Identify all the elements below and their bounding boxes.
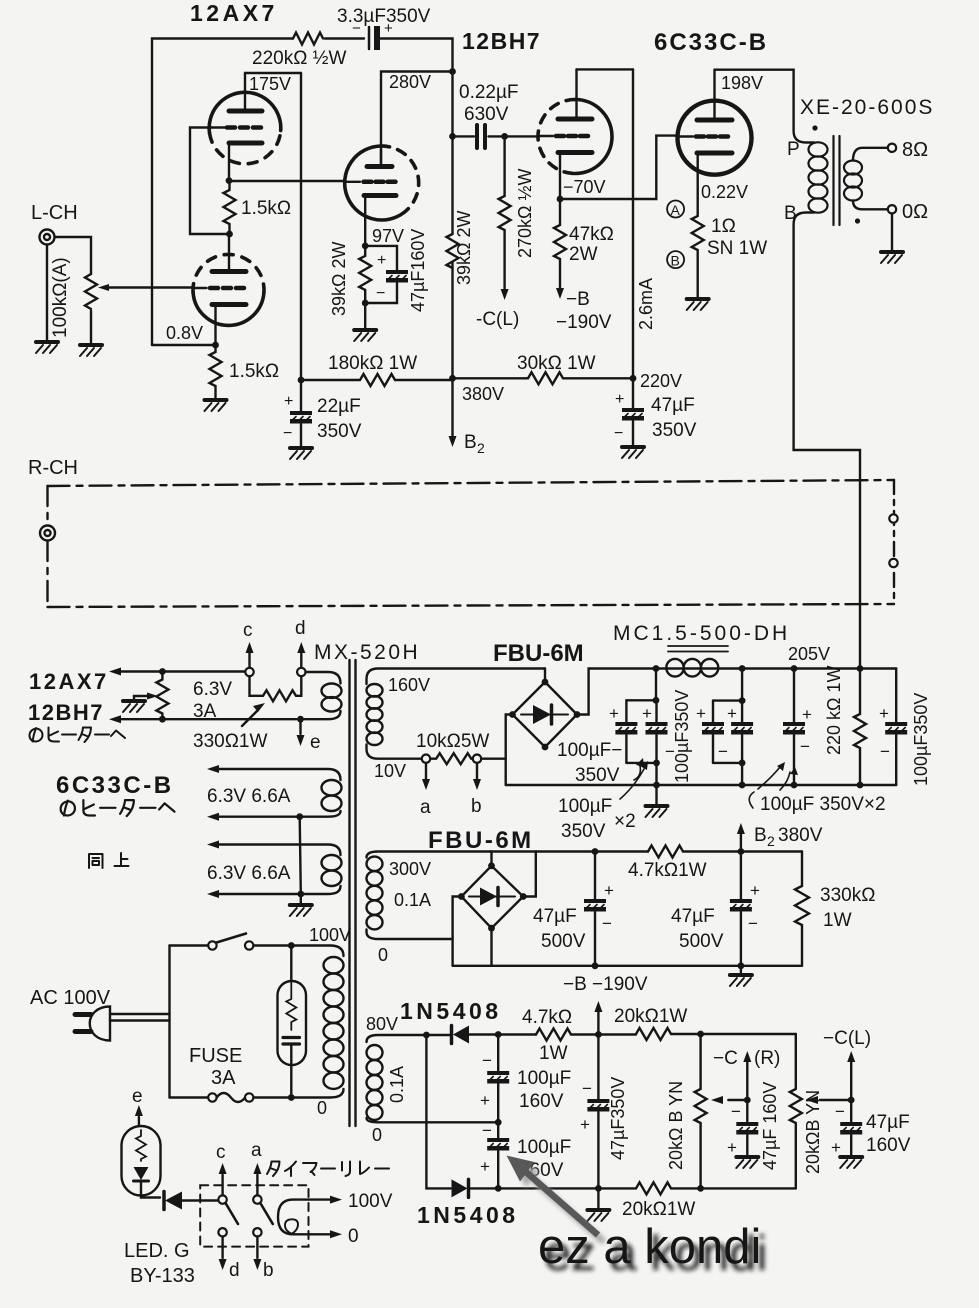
- svg-text:12AX7: 12AX7: [29, 669, 109, 694]
- V3 plate: [558, 117, 592, 122]
- svg-text:−70V: −70V: [563, 177, 606, 197]
- diode 1N5408 no2: [452, 1179, 468, 1197]
- svg-text:6.3V 6.6A: 6.3V 6.6A: [207, 786, 291, 807]
- svg-text:350V: 350V: [652, 420, 697, 441]
- V2 cathode: [364, 193, 396, 198]
- svg-text:3.3µF350V: 3.3µF350V: [337, 6, 431, 27]
- svg-text:500V: 500V: [679, 931, 724, 952]
- node rail cap1: [653, 665, 660, 672]
- OPT secondary top wire: [853, 148, 888, 161]
- wire 175V node down: [300, 73, 302, 380]
- svg-text:B: B: [671, 253, 680, 269]
- wire feedback top: [152, 39, 364, 346]
- svg-text:6C33C-B: 6C33C-B: [56, 772, 174, 799]
- resistor 1 ohm SN 1W: [692, 212, 704, 298]
- svg-text:39kΩ 2W: 39kΩ 2W: [329, 242, 349, 316]
- node SRPP mid: [226, 231, 233, 238]
- svg-text:(R): (R): [754, 1048, 780, 1069]
- svg-text:B: B: [464, 432, 477, 453]
- svg-text:FBU-6M: FBU-6M: [428, 827, 534, 854]
- arrow to -B: [556, 288, 564, 299]
- svg-text:+: +: [615, 391, 624, 408]
- resistor 4.7k 1W: [648, 846, 683, 858]
- capacitor 100uF c: [712, 701, 714, 722]
- svg-text:30kΩ 1W: 30kΩ 1W: [517, 353, 596, 374]
- svg-text:10V: 10V: [374, 761, 406, 781]
- capacitor 47uF 160V right ch: [746, 1100, 748, 1122]
- svg-text:1.5kΩ: 1.5kΩ: [241, 198, 291, 219]
- svg-text:47µF: 47µF: [671, 906, 715, 927]
- svg-text:280V: 280V: [389, 72, 431, 92]
- wire bridge2 ac2: [453, 897, 462, 966]
- V3 cathode: [558, 150, 592, 155]
- svg-text:SN 1W: SN 1W: [707, 238, 767, 259]
- wire bridge2 dc+: [523, 852, 536, 897]
- svg-text:0.22µF: 0.22µF: [459, 82, 519, 103]
- capacitor 47uF 500V a: [594, 852, 596, 900]
- svg-text:+: +: [831, 1138, 841, 1157]
- svg-text:4.7kΩ: 4.7kΩ: [522, 1007, 572, 1028]
- winding 300V: [367, 852, 491, 940]
- terminal a tap: [422, 755, 430, 763]
- wire bridge2 dc-: [490, 928, 492, 966]
- svg-text:0: 0: [317, 1098, 327, 1118]
- svg-text:−: −: [614, 425, 623, 442]
- svg-text:0: 0: [372, 1125, 382, 1145]
- node heater link 1: [296, 813, 303, 820]
- node V2 cathode: [362, 243, 369, 250]
- svg-text:47µF 160V: 47µF 160V: [760, 1082, 780, 1170]
- svg-text:220 kΩ 1W: 220 kΩ 1W: [824, 665, 844, 755]
- svg-text:350V: 350V: [561, 821, 606, 842]
- capacitor 100uF a: [625, 700, 627, 722]
- wire to V3 grid: [505, 135, 539, 137]
- wire OPT B down: [794, 213, 860, 667]
- node doubler plus: [495, 1031, 502, 1038]
- V1b plate: [212, 269, 246, 274]
- svg-text:+: +: [879, 704, 889, 723]
- svg-text:47µF: 47µF: [533, 906, 577, 927]
- resistor 4.7k 1W doubler: [536, 1029, 571, 1041]
- svg-text:+: +: [727, 1138, 737, 1157]
- capacitor 100uF b: [655, 700, 657, 722]
- svg-text:380V: 380V: [778, 825, 823, 846]
- cap pair2 top bar: [713, 669, 742, 701]
- resistor 330 ohm 1W link: [250, 676, 302, 701]
- svg-text:+: +: [696, 704, 706, 723]
- svg-text:−: −: [376, 285, 385, 302]
- AC plug: [90, 1007, 110, 1041]
- svg-text:A: A: [671, 202, 681, 218]
- svg-text:160V: 160V: [388, 675, 430, 695]
- capacitor 47uF 350V: [632, 378, 634, 408]
- svg-text:−: −: [602, 914, 612, 933]
- svg-text:−C: −C: [713, 1048, 738, 1069]
- svg-text:×2: ×2: [614, 811, 636, 832]
- svg-text:20kΩ1W: 20kΩ1W: [614, 1006, 687, 1027]
- relay contact a: [253, 1195, 261, 1203]
- svg-text:47µF350V: 47µF350V: [608, 1077, 628, 1160]
- svg-text:+: +: [604, 881, 614, 900]
- V1b cathode: [212, 302, 246, 307]
- wire grid V1a loop: [190, 128, 229, 235]
- potentiometer 100k(A): [85, 274, 97, 309]
- resistor 330k 1W: [795, 852, 809, 966]
- wire bridge1 top tie: [544, 669, 546, 683]
- fuse: [170, 1096, 209, 1098]
- arrow to -C(L): [501, 289, 509, 300]
- node rail choke right: [739, 665, 746, 672]
- svg-text:0.1A: 0.1A: [394, 890, 431, 910]
- svg-text:P: P: [787, 139, 800, 160]
- terminal A: [667, 201, 684, 218]
- rail -B -190V: [453, 965, 802, 967]
- ground supply1: [655, 785, 657, 806]
- svg-text:1N5408: 1N5408: [400, 998, 502, 1024]
- ground 47uF 220V: [622, 447, 644, 458]
- wire plate V1a to node: [245, 72, 301, 74]
- svg-text:100kΩ(A): 100kΩ(A): [50, 257, 71, 338]
- node B2 tap: [738, 848, 745, 855]
- OPT secondary winding: [844, 161, 862, 201]
- capacitor 47uF 160V left ch: [850, 1100, 852, 1122]
- arrow to -B upper: [597, 1012, 599, 1035]
- wire 6C33C heater 2 top: [219, 845, 341, 856]
- AC cord: [110, 1014, 170, 1021]
- svg-text:100µF350V: 100µF350V: [672, 690, 692, 783]
- cap pair2 bottom bar: [713, 763, 742, 785]
- terminal 0 ohm: [888, 205, 896, 213]
- wire bridge2 top tie: [490, 852, 492, 866]
- capacitor 100uF d: [741, 701, 743, 722]
- svg-text:100µF: 100µF: [517, 1137, 571, 1158]
- resistor 220k feedback: [293, 33, 323, 45]
- svg-text:100µF 350V×2: 100µF 350V×2: [760, 794, 886, 815]
- svg-text:0.1A: 0.1A: [387, 1066, 407, 1103]
- hum pot wiper ground: [134, 696, 147, 700]
- svg-text:6.3V 6.6A: 6.3V 6.6A: [207, 863, 291, 884]
- wire plate V2: [381, 72, 453, 167]
- MX core: [350, 660, 356, 1126]
- arrow B2 feed: [451, 378, 453, 436]
- svg-text:220V: 220V: [640, 371, 682, 391]
- node V3 grid: [501, 133, 508, 140]
- svg-text:100µF: 100µF: [558, 796, 612, 817]
- svg-text:330kΩ: 330kΩ: [820, 885, 875, 906]
- svg-text:100V: 100V: [309, 925, 351, 945]
- relay coil: [278, 1200, 309, 1235]
- wire heater center tap: [300, 817, 301, 905]
- V4 grid: [696, 134, 728, 139]
- svg-text:39kΩ 2W: 39kΩ 2W: [454, 211, 474, 285]
- svg-text:BY-133: BY-133: [130, 1265, 195, 1287]
- svg-text:R-CH: R-CH: [28, 457, 78, 479]
- node -70V: [557, 196, 564, 203]
- node pot R top: [697, 1031, 704, 1038]
- wire B+ column 12BH7: [451, 72, 453, 379]
- svg-text:4.7kΩ1W: 4.7kΩ1W: [628, 860, 707, 881]
- triode V3 envelope: [575, 100, 612, 174]
- wire heater bottom: [121, 718, 296, 720]
- resistor 30k 1W: [453, 372, 634, 384]
- node -C feed: [595, 1031, 602, 1038]
- node 220V: [630, 375, 637, 382]
- R-CH box right edge: [893, 480, 895, 604]
- svg-text:+: +: [727, 704, 737, 723]
- node pot R bottom: [697, 1185, 704, 1192]
- relay box: [200, 1185, 308, 1246]
- arrow -C(R): [746, 1062, 748, 1100]
- svg-text:AC 100V: AC 100V: [30, 987, 111, 1009]
- svg-text:+: +: [802, 705, 812, 724]
- relay out 100V: [309, 1198, 331, 1200]
- svg-text:100µF−: 100µF−: [557, 740, 622, 761]
- svg-text:330Ω1W: 330Ω1W: [193, 731, 267, 752]
- potentiometer 20k B YN right ch: [695, 1034, 707, 1188]
- svg-text:3A: 3A: [193, 701, 217, 722]
- svg-text:100µF: 100µF: [517, 1068, 571, 1089]
- watermark ez a kondi: [507, 1156, 768, 1282]
- svg-text:80V: 80V: [366, 1014, 398, 1034]
- svg-text:−: −: [748, 914, 758, 933]
- wire bridge1 dc+: [577, 669, 656, 715]
- svg-text:−: −: [880, 742, 890, 761]
- svg-text:12BH7: 12BH7: [28, 700, 104, 725]
- ground doubler: [597, 1188, 599, 1210]
- node 0.22uF tap: [449, 133, 456, 140]
- svg-text:47kΩ: 47kΩ: [569, 224, 614, 245]
- svg-text:47µF: 47µF: [651, 395, 695, 416]
- svg-text:47µF160V: 47µF160V: [408, 229, 428, 312]
- capacitor 100uF e mid: [793, 669, 795, 723]
- svg-text:−B −190V: −B −190V: [563, 974, 648, 995]
- input jack R: [40, 526, 55, 541]
- V3 grid: [556, 134, 588, 139]
- ground V2 cathode: [354, 330, 376, 341]
- svg-text:205V: 205V: [788, 644, 830, 664]
- node 39k bottom: [362, 300, 369, 307]
- svg-text:22µF: 22µF: [317, 396, 361, 417]
- LED pill: [122, 1126, 161, 1196]
- svg-text:0.8V: 0.8V: [166, 323, 203, 343]
- node lamp bottom: [288, 1094, 295, 1101]
- svg-text:b: b: [263, 1260, 274, 1281]
- V1a cathode: [229, 141, 262, 146]
- resistor 1.5k upper: [224, 181, 236, 234]
- svg-text:+: +: [480, 1157, 490, 1176]
- svg-text:500V: 500V: [541, 931, 586, 952]
- node 175V rail bottom: [298, 377, 305, 384]
- arrow b: [256, 1237, 258, 1259]
- svg-text:ez a kondi: ez a kondi: [538, 1220, 761, 1274]
- svg-text:−: −: [718, 742, 728, 761]
- svg-text:+: +: [642, 704, 652, 723]
- capacitor 100uF 160V no2: [497, 1122, 499, 1138]
- ground 22uF: [290, 448, 312, 459]
- V2 plate: [367, 164, 392, 169]
- node heater link 2: [297, 891, 304, 898]
- text no-heater-e 6C33C: [61, 801, 75, 816]
- svg-text:10kΩ5W: 10kΩ5W: [416, 731, 489, 752]
- svg-text:1N5408: 1N5408: [417, 1202, 519, 1228]
- wire V4 plate to OPT: [715, 70, 815, 143]
- svg-text:0: 0: [378, 945, 388, 965]
- wire bridge1 ac2 left: [506, 715, 513, 786]
- svg-text:b: b: [471, 796, 482, 817]
- cap pair1 top bar: [626, 669, 656, 701]
- terminal B: [667, 251, 684, 268]
- svg-text:20kΩ B YN: 20kΩ B YN: [666, 1081, 686, 1170]
- svg-text:−C(L): −C(L): [823, 1028, 871, 1049]
- ground jack L: [46, 245, 48, 343]
- capacitor 47uF 350V mid: [597, 1035, 599, 1100]
- node doubler mid: [495, 1119, 502, 1126]
- wire V3 cathode to V4 grid: [560, 136, 678, 199]
- OPT phase dot secondary: [855, 218, 860, 223]
- wire cathode to V2 grid: [229, 180, 344, 182]
- svg-text:MX-520H: MX-520H: [314, 641, 420, 664]
- svg-text:XE-20-600S: XE-20-600S: [800, 96, 934, 119]
- resistor 1.5k lower: [210, 345, 222, 400]
- svg-text:12BH7: 12BH7: [462, 28, 541, 54]
- capacitor 47uF 160V cathode: [365, 246, 397, 270]
- ground 47uF left ch: [840, 1157, 862, 1168]
- svg-text:350V: 350V: [575, 765, 620, 786]
- cap pair1 bottom bar: [626, 763, 656, 785]
- svg-text:c: c: [216, 1142, 226, 1163]
- wire 6C33C heater 1 top: [219, 769, 341, 780]
- resistor 180k 1W: [301, 374, 453, 386]
- potentiometer 20k B YN left ch: [790, 1034, 802, 1188]
- triode V4 envelope 6C33C-B: [678, 101, 752, 175]
- svg-text:100V: 100V: [348, 1191, 393, 1212]
- terminal b tap: [473, 755, 481, 763]
- svg-text:+: +: [480, 1091, 490, 1110]
- OPT secondary bottom wire: [853, 201, 888, 210]
- node 205V B line: [857, 665, 864, 672]
- diode BY-133: [165, 1192, 182, 1210]
- node V1a cathode out: [226, 177, 233, 184]
- diode 1N5408 no1: [453, 1026, 469, 1044]
- capacitor 3.3uF: [368, 27, 371, 49]
- svg-text:6.3V: 6.3V: [193, 679, 232, 700]
- svg-text:+: +: [609, 704, 619, 723]
- input jack L: [40, 230, 55, 245]
- terminal c: [245, 668, 253, 676]
- terminal 8 ohm: [888, 144, 896, 152]
- svg-text:2: 2: [767, 833, 775, 849]
- V4 plate: [697, 118, 732, 123]
- capacitor 0.22uF coupling: [453, 135, 475, 137]
- svg-text:−: −: [283, 425, 292, 442]
- svg-text:−: −: [582, 1079, 592, 1098]
- capacitor 100uF f right: [895, 669, 897, 723]
- wire top to 12BH7 column: [380, 39, 453, 72]
- svg-text:2W: 2W: [569, 244, 598, 265]
- svg-text:300V: 300V: [389, 859, 431, 879]
- resistor 47k 2W: [554, 199, 566, 288]
- svg-text:B: B: [754, 825, 767, 846]
- svg-text:−: −: [835, 1102, 845, 1121]
- svg-text:MC1.5-500-DH: MC1.5-500-DH: [613, 622, 790, 645]
- svg-text:a: a: [420, 797, 431, 818]
- OPT phase dot primary: [812, 125, 817, 130]
- wire jack to pot: [55, 237, 92, 274]
- wiper arrow pot L: [820, 1099, 851, 1101]
- svg-text:d: d: [229, 1260, 240, 1281]
- svg-text:47µF: 47µF: [866, 1112, 910, 1133]
- arrow B2 380V: [740, 834, 742, 852]
- arrow 330 ohm pointer: [242, 710, 258, 726]
- svg-text:3A: 3A: [211, 1067, 236, 1089]
- svg-text:0.22V: 0.22V: [701, 182, 748, 202]
- svg-text:0Ω: 0Ω: [902, 201, 928, 223]
- wire AC split: [168, 946, 170, 1098]
- primary winding 100V: [324, 957, 344, 973]
- svg-text:20kΩ1W: 20kΩ1W: [622, 1199, 695, 1220]
- terminal R out 1: [889, 514, 897, 522]
- svg-text:380V: 380V: [462, 384, 504, 404]
- svg-text:+: +: [580, 1115, 590, 1134]
- svg-text:12AX7: 12AX7: [190, 0, 278, 26]
- svg-text:1W: 1W: [823, 910, 852, 931]
- wire 6C33C heater 1 bottom: [219, 811, 341, 817]
- terminal e arrow: [297, 716, 304, 723]
- svg-text:180kΩ 1W: 180kΩ 1W: [328, 353, 417, 374]
- svg-text:−B: −B: [566, 289, 590, 310]
- node cathode V1b: [212, 342, 219, 349]
- svg-text:175V: 175V: [249, 74, 291, 94]
- resistor 39k 2W cathode: [359, 246, 371, 303]
- svg-text:L-CH: L-CH: [31, 202, 78, 224]
- terminal d: [297, 668, 305, 676]
- resistor 20k 1W top: [636, 1028, 671, 1040]
- svg-text:e: e: [310, 732, 321, 753]
- rail doubler bottom: [426, 1035, 795, 1188]
- relay contact c: [218, 1195, 226, 1203]
- ground 47uF right ch: [736, 1157, 758, 1168]
- V4 cathode: [697, 151, 732, 156]
- svg-text:2: 2: [477, 440, 485, 456]
- bridge rectifier FBU-6M no1: [513, 682, 578, 747]
- rail B2 top: [490, 850, 802, 852]
- text timer relay kana: [267, 1162, 280, 1177]
- svg-text:LED. G: LED. G: [124, 1240, 190, 1262]
- ground pot: [80, 345, 102, 356]
- svg-text:−: −: [482, 1051, 492, 1070]
- V1b grid: [210, 286, 244, 291]
- svg-text:630V: 630V: [464, 104, 509, 125]
- resistor 220k 1W bleeder: [854, 669, 866, 786]
- svg-text:8Ω: 8Ω: [902, 139, 928, 161]
- capacitor 22uF 350V: [300, 380, 302, 411]
- text dou-ue (same as above): [89, 854, 103, 868]
- svg-text:350V: 350V: [317, 421, 362, 442]
- relay out 0: [309, 1233, 331, 1235]
- ground heater ct: [290, 905, 312, 916]
- svg-text:−: −: [731, 1102, 741, 1121]
- svg-text:−190V: −190V: [556, 312, 612, 333]
- wire heater top: [121, 670, 245, 672]
- svg-text:0: 0: [348, 1226, 359, 1247]
- triode V2 envelope: [345, 146, 404, 220]
- capacitor 47uF 500V b: [740, 852, 742, 900]
- rail to 205V: [742, 667, 896, 669]
- svg-text:d: d: [295, 618, 306, 639]
- rail doubler top: [426, 1034, 795, 1035]
- resistor 270k grid leak: [499, 136, 511, 290]
- OPT primary winding: [809, 142, 828, 212]
